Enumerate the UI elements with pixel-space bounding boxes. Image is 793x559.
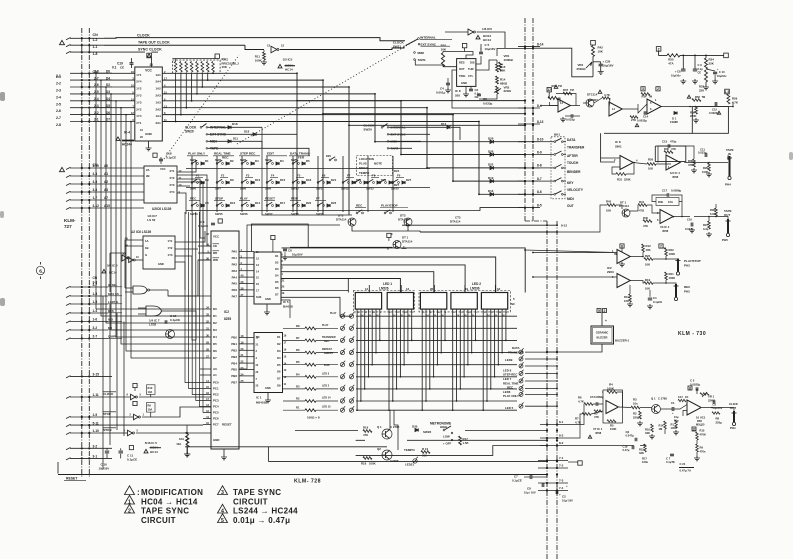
svg-text:SW18: SW18 — [291, 212, 299, 216]
svg-text:R35: R35 — [664, 147, 669, 151]
svg-text:LED 15: LED 15 — [322, 406, 331, 409]
svg-text:OUT: OUT — [730, 406, 736, 410]
seven segment display 3 — [420, 293, 446, 310]
wire 8-14 to tape level circuit — [533, 48, 593, 77]
svg-text:U2IC6 LS139: U2IC6 LS139 — [152, 207, 172, 211]
svg-text:G: G — [145, 253, 147, 257]
resistor R22 100K — [665, 248, 668, 256]
svg-text:D 1: D 1 — [672, 117, 677, 121]
svg-text:10A: 10A — [148, 390, 153, 394]
svg-text:7-2: 7-2 — [559, 464, 564, 468]
svg-text:8255: 8255 — [224, 317, 231, 321]
svg-text:27K: 27K — [631, 118, 636, 122]
svg-text:SW2: SW2 — [215, 158, 222, 162]
resistor R36 47K — [693, 159, 696, 167]
svg-text:5.6K: 5.6K — [710, 212, 716, 216]
svg-text:D20: D20 — [306, 201, 312, 205]
svg-text:A7: A7 — [104, 196, 108, 200]
svg-text:TAPE SYNC: TAPE SYNC — [233, 488, 281, 497]
svg-text:U2 IC6 LS139: U2 IC6 LS139 — [131, 230, 151, 234]
svg-text:R39: R39 — [658, 200, 663, 204]
svg-text:1Y1: 1Y1 — [136, 73, 142, 77]
svg-text:C16: C16 — [687, 218, 692, 222]
svg-text:8-1: 8-1 — [559, 420, 564, 424]
wire BA61B lower outputs — [282, 291, 353, 317]
svg-text:10 UC1: 10 UC1 — [696, 416, 706, 420]
svg-text::: : — [137, 488, 140, 497]
svg-text:3.3μ: 3.3μ — [703, 227, 709, 231]
svg-text:1/6 IC5: 1/6 IC5 — [482, 27, 492, 31]
svg-text:13: 13 — [267, 44, 271, 48]
svg-text:C2: C2 — [562, 495, 566, 499]
svg-text:F3: F3 — [246, 174, 250, 178]
capacitor C10 10u/16V — [106, 448, 108, 450]
svg-text:CLOCK: CLOCK — [137, 33, 150, 37]
svg-text:0.1μCE: 0.1μCE — [166, 156, 176, 160]
transistor Q3 — [166, 330, 175, 339]
svg-text:1-9: 1-9 — [93, 413, 98, 417]
svg-text:PC4: PC4 — [213, 405, 219, 409]
LED pair row 4 — [340, 351, 344, 355]
wire buzzer feed — [601, 313, 603, 327]
svg-text:PH2: PH2 — [684, 290, 690, 294]
svg-text:+ OFF: + OFF — [443, 442, 452, 446]
svg-text:R6: R6 — [296, 348, 300, 352]
svg-text:GND: GND — [213, 438, 219, 442]
svg-text:220μ: 220μ — [716, 420, 723, 424]
svg-text:R45: R45 — [606, 200, 612, 204]
wire SW20 tape line — [208, 148, 309, 156]
board divider dash-dot lower pair — [546, 221, 548, 559]
svg-text:10K: 10K — [645, 263, 650, 267]
wire 2901 row — [601, 146, 728, 174]
inverter on MTON line — [112, 432, 127, 434]
svg-text:HIGH: HIGH — [440, 425, 447, 429]
svg-text:DTA114: DTA114 — [402, 240, 413, 244]
svg-text:10μ/16ν: 10μ/16ν — [671, 73, 681, 77]
svg-text:DTA114: DTA114 — [336, 218, 347, 222]
svg-text:R11: R11 — [624, 295, 629, 299]
svg-text:10A: 10A — [148, 408, 153, 412]
connector pin 3-5 / A2 — [81, 183, 83, 185]
warning triangle (modification) top-left — [60, 40, 65, 44]
squares 9 2 buzzer refs — [597, 309, 601, 313]
svg-text:IC 1: IC 1 — [256, 396, 262, 400]
capacitor C6 10u/16V — [271, 235, 275, 239]
resistor R7 100ohm — [283, 339, 305, 341]
svg-text:10K: 10K — [606, 209, 611, 213]
svg-text:REPEAT: REPEAT — [322, 348, 332, 351]
svg-text:SW14: SW14 — [190, 212, 198, 216]
resistor 27K — [630, 116, 638, 119]
svg-text:7-1: 7-1 — [559, 456, 564, 460]
svg-text:470ρ: 470ρ — [670, 140, 677, 144]
svg-text:CIRCUIT: CIRCUIT — [233, 498, 268, 507]
resistor 10K pulldown on MTON — [186, 436, 189, 447]
svg-text:3: 3 — [221, 490, 224, 496]
svg-text:PC2: PC2 — [213, 393, 219, 397]
svg-text:2A1: 2A1 — [155, 121, 161, 125]
resistor R9 10A boxed — [147, 403, 156, 413]
svg-text:O8: O8 — [277, 384, 281, 388]
wire bus switch matrix to connector (staircase down) — [297, 73, 525, 215]
resistor R35 47K — [664, 151, 673, 154]
connector pin 3-6 / A3 — [81, 191, 83, 193]
svg-text:O2: O2 — [277, 342, 281, 346]
svg-text:DIS: DIS — [470, 61, 475, 65]
wire LS139 outputs fan to 8255 — [168, 175, 211, 340]
svg-text:RESET: RESET — [222, 423, 232, 427]
svg-text:47K: 47K — [594, 415, 599, 419]
svg-text:8-5: 8-5 — [537, 203, 542, 207]
svg-text:10μ/16V: 10μ/16V — [485, 47, 496, 51]
svg-text:GND: GND — [145, 132, 153, 136]
svg-text:1-8: 1-8 — [93, 52, 98, 56]
svg-text:D17: D17 — [280, 201, 286, 205]
svg-text:O3: O3 — [277, 349, 281, 353]
wire SYNC CLOCK bus — [104, 51, 145, 53]
LED pair row 8 — [340, 399, 344, 403]
svg-text:D0: D0 — [213, 307, 217, 311]
connector pin 3-10 / A0 — [81, 167, 83, 169]
svg-text:33K: 33K — [645, 431, 650, 435]
svg-text:15A: 15A — [668, 200, 673, 204]
resistor R39 15A in box — [656, 198, 679, 206]
svg-text:100Ω × 8: 100Ω × 8 — [307, 416, 320, 420]
svg-text:LOW: LOW — [443, 435, 450, 439]
op-amp IC2 2903 a — [617, 250, 630, 264]
svg-text:1A3: 1A3 — [155, 100, 161, 104]
svg-text:KLM-: KLM- — [64, 218, 76, 223]
svg-text:LN526: LN526 — [379, 287, 389, 291]
ceramic buzzer BUZZER1 — [591, 326, 614, 344]
inverter 5/6 IC5 — [122, 255, 127, 261]
svg-text:HC04 → HC14: HC04 → HC14 — [141, 498, 198, 507]
left board-edge dash-dot line B — [88, 28, 90, 478]
svg-text:SW12: SW12 — [341, 187, 349, 191]
svg-text:M5Ц25: M5Ц25 — [696, 423, 705, 427]
resistor R10 10A boxed — [147, 385, 156, 395]
op-amp V3 IC4 4558 — [660, 210, 673, 224]
svg-text:4.7K: 4.7K — [578, 399, 584, 403]
svg-text:8-14: 8-14 — [537, 42, 544, 46]
svg-text:RD: RD — [213, 251, 217, 255]
svg-text:0.1μ: 0.1μ — [698, 67, 704, 71]
svg-text:10μ/ 16V: 10μ/ 16V — [562, 499, 573, 503]
svg-text:O5: O5 — [275, 280, 279, 284]
resistor R30 input — [547, 88, 551, 92]
svg-text:PB7: PB7 — [231, 381, 237, 385]
svg-text:2-1: 2-1 — [56, 75, 61, 79]
wire 555 connections — [415, 44, 533, 99]
connector pins 8-x labels upper — [524, 46, 526, 48]
resistor R1 100ohm — [283, 409, 305, 411]
svg-text:470κ: 470κ — [700, 449, 706, 453]
svg-text:F5: F5 — [297, 174, 301, 178]
svg-text:OUT: OUT — [459, 67, 465, 71]
wire 5-11 row — [112, 424, 203, 426]
wire BA61B gnd — [266, 304, 268, 310]
wire opamp row1 output — [550, 98, 734, 113]
squares 3 2 — [641, 87, 645, 91]
svg-text:O4: O4 — [275, 273, 279, 277]
svg-text:C17: C17 — [678, 395, 683, 399]
svg-text:MTON: MTON — [103, 428, 111, 432]
svg-text:0.033μ: 0.033μ — [566, 118, 575, 122]
inverter 1/6 IC5 HC14 on tape out clock — [271, 46, 277, 53]
resistor 4.7K — [602, 97, 610, 100]
svg-text:D10: D10 — [230, 201, 236, 205]
seven segment display 2 — [387, 293, 413, 310]
wire bus left verticals lower — [103, 296, 124, 469]
svg-text:100K: 100K — [669, 252, 676, 256]
svg-text:KLM- 728: KLM- 728 — [294, 479, 321, 485]
svg-text:D4: D4 — [213, 335, 217, 339]
svg-text:+: + — [559, 493, 561, 497]
svg-text:4558: 4558 — [595, 431, 602, 435]
svg-text:SW16: SW16 — [240, 212, 248, 216]
svg-text:D21: D21 — [331, 178, 337, 182]
svg-text:O4: O4 — [277, 356, 281, 360]
wire TAPE OUT CLOCK bus — [104, 44, 245, 46]
legend modification triangle — [125, 486, 135, 495]
svg-text:100K: 100K — [702, 170, 708, 174]
svg-text:2B: 2B — [146, 174, 150, 178]
connector pin 3-2 — [81, 329, 83, 331]
wire CLOCK bus — [104, 38, 405, 41]
svg-text:REC: REC — [324, 340, 329, 343]
svg-text:1Y3: 1Y3 — [136, 100, 142, 104]
gate 1/4 IC7 LS32 or — [146, 306, 162, 316]
connector pin 3-2 — [81, 447, 83, 449]
svg-text:3-15: 3-15 — [93, 373, 100, 377]
svg-text:SW8: SW8 — [240, 187, 247, 191]
svg-text:HC14: HC14 — [483, 38, 491, 42]
svg-text:STOP: STOP — [103, 412, 111, 416]
LED pair row 1 — [340, 314, 344, 318]
trimmer VR2 250 / resistor R42 10K — [591, 40, 596, 45]
svg-text:8-10: 8-10 — [537, 138, 544, 142]
svg-text:PC1: PC1 — [213, 387, 219, 391]
svg-text:D23: D23 — [331, 201, 337, 205]
svg-text:12: 12 — [281, 44, 285, 48]
resistor R31 220K — [616, 173, 626, 176]
wire display matrix horizontals — [356, 316, 517, 410]
svg-text:6: 6 — [39, 269, 42, 274]
svg-text:R28: R28 — [710, 208, 715, 212]
svg-text:R3: R3 — [296, 384, 300, 388]
resistor R26 100K — [708, 163, 711, 171]
svg-text:10μ / 16V: 10μ / 16V — [524, 491, 536, 495]
LED pair row 5 — [340, 363, 344, 367]
svg-text:+: + — [566, 484, 568, 488]
svg-text:8-9: 8-9 — [537, 150, 542, 154]
svg-text:100κ: 100κ — [642, 460, 648, 464]
op-amp U1b — [609, 102, 622, 116]
svg-text:CN: CN — [93, 276, 98, 280]
svg-text:D12: D12 — [255, 178, 261, 182]
svg-text:TEMPO: TEMPO — [359, 171, 370, 175]
board divider jog — [525, 220, 547, 222]
svg-text:470K: 470K — [700, 432, 706, 436]
svg-text:C 9: C 9 — [698, 63, 703, 67]
svg-text:10μ: 10μ — [674, 415, 679, 419]
svg-text:SW1: SW1 — [190, 158, 197, 162]
svg-text:SHS: SHS — [256, 295, 262, 299]
wire RA1 pulldown verticals — [176, 73, 213, 122]
svg-text:C8: C8 — [677, 70, 681, 74]
wire stop to PC4 — [142, 407, 211, 417]
svg-text:PLUS: PLUS — [359, 162, 367, 166]
capacitor C8 10u/16V — [681, 69, 686, 71]
inverter on CLOCK line — [112, 396, 130, 398]
wire switch matrix row rails — [186, 169, 430, 211]
connector pin 3-1 — [81, 457, 83, 459]
svg-text:R50: R50 — [648, 158, 654, 162]
svg-text:R41: R41 — [639, 200, 645, 204]
svg-text:1K: 1K — [685, 395, 688, 399]
wire switch matrix verticals — [192, 156, 393, 212]
svg-text:LS 52: LS 52 — [147, 218, 155, 222]
resistor 10K vertical bottom-left — [186, 432, 189, 443]
svg-text:HC14: HC14 — [285, 68, 293, 72]
svg-text:4558: 4558 — [672, 175, 679, 179]
wire bus HC244 outputs staircase — [162, 73, 479, 121]
svg-text:F2: F2 — [221, 174, 225, 178]
wire tape out clock to SW21 — [245, 45, 264, 49]
svg-text:PA4: PA4 — [232, 275, 238, 279]
svg-text:A1: A1 — [104, 172, 108, 176]
wire DT1 emitter junction — [402, 247, 407, 250]
svg-text:10K: 10K — [222, 65, 228, 69]
svg-text:Q2: Q2 — [377, 447, 381, 451]
svg-text:18: 18 — [497, 287, 501, 291]
resistor R12 560 — [421, 451, 430, 454]
svg-text:D14: D14 — [255, 201, 261, 205]
svg-text:7-4: 7-4 — [559, 486, 564, 490]
svg-text:LN536: LN536 — [470, 287, 480, 291]
svg-text:SW20: SW20 — [363, 128, 372, 132]
svg-text:10μ/16V: 10μ/16V — [292, 253, 303, 257]
svg-text:O7: O7 — [275, 293, 279, 297]
svg-text:CE: CE — [698, 71, 702, 75]
svg-text:PC5: PC5 — [213, 411, 219, 415]
svg-text:2Y3: 2Y3 — [170, 183, 175, 187]
wire LS139-2 inputs — [110, 240, 143, 253]
svg-text:A0: A0 — [213, 367, 217, 371]
svg-text:47K: 47K — [363, 433, 368, 437]
resistor R25b 22K — [705, 70, 708, 82]
svg-text:1/5 IC5: 1/5 IC5 — [283, 58, 293, 62]
svg-text:PLAY: PLAY — [322, 324, 329, 327]
wire sync clock to HC244 pin 20 — [151, 58, 153, 67]
svg-text:MIDI: MIDI — [418, 51, 425, 55]
svg-text:0.47μ 7A: 0.47μ 7A — [680, 469, 692, 473]
svg-text:O3: O3 — [275, 267, 279, 271]
svg-text:TAPE SYNC: TAPE SYNC — [141, 507, 189, 516]
svg-text:8-12: 8-12 — [561, 223, 567, 227]
svg-text:3-10: 3-10 — [93, 164, 100, 168]
svg-text:D15: D15 — [280, 178, 286, 182]
svg-text:GND: GND — [461, 81, 467, 85]
svg-text:14: 14 — [365, 287, 369, 291]
svg-text:MIDI: MIDI — [567, 197, 574, 201]
connector BH1 dashed box — [551, 137, 565, 199]
svg-text:A5: A5 — [124, 236, 128, 240]
IC2 8255 PPI — [211, 231, 239, 449]
connector pin 2-7 — [81, 337, 83, 339]
svg-text:DATA: DATA — [567, 138, 576, 142]
svg-text:R5: R5 — [610, 424, 614, 428]
IC5 BA61B — [254, 252, 281, 304]
wire reset bottom rail — [57, 462, 59, 474]
resistor R18 100K — [363, 457, 372, 460]
resistor R20 10K — [644, 258, 653, 261]
svg-text:26: 26 — [430, 287, 434, 291]
resistor R19 47K — [363, 430, 372, 433]
dotted diagonal reference line 2 — [237, 39, 418, 144]
seven segment display 4 — [451, 293, 477, 310]
svg-text:8-13: 8-13 — [537, 120, 544, 124]
svg-text:9: 9 — [598, 309, 600, 313]
wire row C rail to connector 8-5 — [340, 208, 525, 211]
svg-text:C 10: C 10 — [719, 70, 725, 74]
svg-text:0.1μCE: 0.1μCE — [170, 318, 180, 322]
svg-text:STEP REC: STEP REC — [240, 152, 256, 156]
svg-text:0.0068μ: 0.0068μ — [594, 395, 604, 399]
CN1 pins — [81, 37, 83, 39]
wire matrix to Q1 Q2 — [390, 410, 398, 450]
legend triangle 2 — [125, 504, 135, 513]
resistor R45 10K — [607, 204, 616, 207]
capacitor C16 0.047u — [691, 223, 693, 227]
resistor R50 10K — [647, 163, 656, 166]
svg-text:D4: D4 — [255, 159, 259, 163]
svg-text:47K: 47K — [688, 163, 693, 167]
resistor R11b 10K — [629, 294, 632, 302]
svg-text:IN: IN — [728, 152, 731, 156]
svg-text:D18: D18 — [232, 122, 238, 126]
svg-text:555: 555 — [455, 94, 460, 98]
wire 2903 rows — [525, 248, 678, 297]
svg-text:0.1μCE: 0.1μCE — [127, 457, 137, 461]
switch SW10-13 right group — [354, 182, 356, 184]
svg-text:R1: R1 — [296, 406, 300, 410]
svg-text:2A4: 2A4 — [155, 80, 161, 84]
inverter 5/6 IC5 at LS139-2 G — [129, 258, 134, 263]
svg-text:D24: D24 — [394, 169, 400, 173]
svg-text:PB6: PB6 — [231, 374, 237, 378]
wire bus data lines to 8255 — [96, 73, 211, 358]
svg-text:D27: D27 — [394, 183, 400, 187]
svg-text:DATA: DATA — [512, 346, 521, 350]
svg-text:0.1μCE: 0.1μCE — [653, 300, 662, 304]
svg-text:LED 14: LED 14 — [322, 397, 331, 400]
svg-text:BA61B: BA61B — [283, 305, 294, 309]
svg-text:TM: TM — [702, 96, 706, 99]
svg-text:VCC: VCC — [145, 69, 152, 73]
svg-text:R19: R19 — [363, 426, 369, 430]
svg-text:1-5: 1-5 — [93, 300, 98, 304]
switch matrix row A switches — [191, 163, 193, 165]
svg-text:REC: REC — [507, 386, 514, 390]
svg-text:3-3: 3-3 — [93, 172, 98, 176]
svg-text:C 21: C 21 — [680, 462, 686, 466]
diode D1 1S988 — [674, 112, 677, 115]
resistor R52 TM — [692, 99, 701, 102]
op-amp U1a — [558, 99, 570, 112]
svg-text:47K: 47K — [643, 224, 648, 228]
